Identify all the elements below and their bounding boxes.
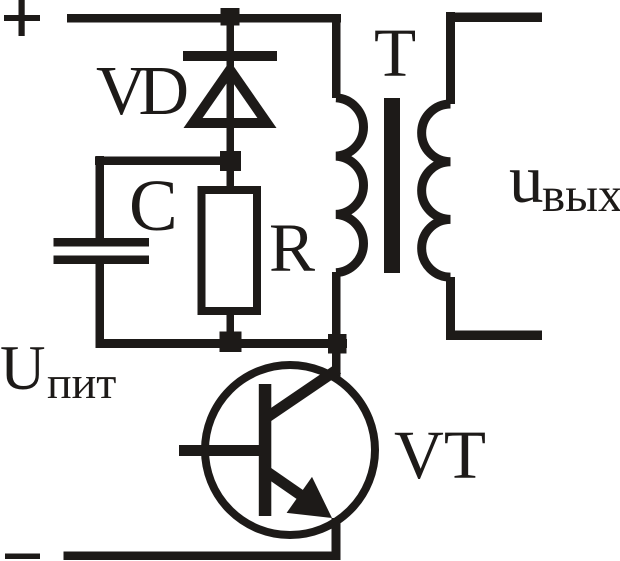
capacitor C plate 2 xyxy=(54,256,150,265)
wire resistor bottom xyxy=(227,313,235,335)
capacitor C plate 1 xyxy=(54,238,150,247)
wire diode vertical xyxy=(227,20,235,190)
diode VD triangle xyxy=(184,61,277,128)
transformer core xyxy=(384,98,400,273)
transistor emitter arrow xyxy=(287,477,332,518)
wire bottom rail xyxy=(64,552,341,561)
node junction mid xyxy=(220,151,241,171)
transistor collector stroke xyxy=(263,369,338,420)
transistor emitter stroke xyxy=(263,469,315,505)
diode VD cathode bar xyxy=(183,51,277,61)
svg-text:T: T xyxy=(374,15,416,91)
resistor R body xyxy=(202,190,258,311)
node junction top xyxy=(221,8,240,26)
node junction R bottom xyxy=(220,332,242,353)
wire secondary top lead xyxy=(446,12,455,104)
wire emitter vertical xyxy=(332,518,341,556)
wire bottom rail RC branch xyxy=(96,339,348,348)
wire output top stub xyxy=(446,13,542,23)
wire collector vertical xyxy=(332,353,341,379)
transistor VT circle xyxy=(205,365,375,535)
plus terminal xyxy=(4,0,40,36)
svg-text:пит: пит xyxy=(47,357,116,408)
wire top rail xyxy=(67,14,341,23)
svg-text:VD: VD xyxy=(96,53,187,130)
svg-text:C: C xyxy=(129,165,178,246)
wire primary top lead xyxy=(332,14,341,98)
svg-text:вых: вых xyxy=(542,167,620,222)
wire output bottom stub xyxy=(446,331,542,341)
wire base lead xyxy=(179,445,259,456)
wire C left lower xyxy=(96,264,105,348)
svg-text:u: u xyxy=(509,141,544,217)
wire C top xyxy=(95,157,230,166)
wire secondary bottom lead xyxy=(446,277,455,340)
wire primary bottom lead xyxy=(332,272,341,334)
label u vyh xyxy=(509,141,620,222)
svg-text:VT: VT xyxy=(394,417,486,493)
transistor base bar xyxy=(259,384,272,516)
minus terminal xyxy=(5,554,40,560)
inductor primary winding xyxy=(336,98,363,273)
node junction collector xyxy=(328,334,347,354)
svg-text:R: R xyxy=(269,210,315,286)
wire C left upper xyxy=(96,156,105,238)
svg-text:U: U xyxy=(0,333,46,403)
label U pit xyxy=(0,333,116,408)
inductor secondary winding xyxy=(422,104,451,277)
